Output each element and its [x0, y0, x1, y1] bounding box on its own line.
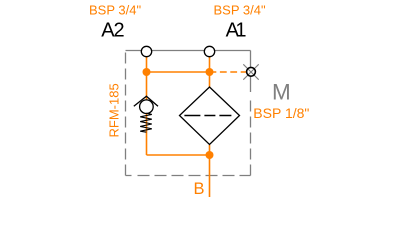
svg-text:BSP 1/8": BSP 1/8" — [253, 105, 309, 121]
filter F1 diamond — [180, 87, 240, 145]
filter F1 element dashed line — [184, 115, 233, 117]
wire A2 vertical — [146, 57, 148, 155]
enclosure top edge (solid) — [126, 50, 251, 52]
check valve V1 ball — [140, 100, 154, 114]
wire upper horizontal A2-A1 — [147, 71, 210, 73]
enclosure right edge lower segment (dashed) — [250, 96, 252, 176]
junction node at B branch — [206, 151, 214, 159]
svg-text:RFM-185: RFM-185 — [107, 83, 122, 137]
junction node at A2 branch — [143, 68, 151, 76]
enclosure bottom edge (dashed) — [126, 175, 251, 177]
wire B vertical — [209, 145, 211, 197]
enclosure left edge (dashed) — [125, 51, 127, 176]
port A1 circle — [204, 46, 214, 56]
junction node at A1 branch — [206, 68, 214, 76]
wire A1 vertical to filter — [209, 57, 211, 87]
port A2 circle — [141, 46, 151, 56]
check valve V1 spring — [140, 113, 152, 132]
gauge port M cross lines — [243, 64, 258, 79]
enclosure right edge upper segment — [250, 51, 252, 93]
svg-text:A2: A2 — [101, 19, 124, 41]
svg-text:A1: A1 — [226, 19, 247, 41]
wire bottom horizontal to node B — [147, 154, 210, 156]
check valve V1 seat — [134, 96, 158, 106]
svg-text:B: B — [194, 180, 205, 198]
wire dashed to gauge port M — [210, 71, 248, 73]
svg-text:M: M — [272, 79, 291, 104]
svg-text:BSP 3/4": BSP 3/4" — [89, 3, 141, 18]
svg-text:BSP 3/4": BSP 3/4" — [214, 3, 266, 18]
gauge port M circle — [247, 67, 256, 76]
